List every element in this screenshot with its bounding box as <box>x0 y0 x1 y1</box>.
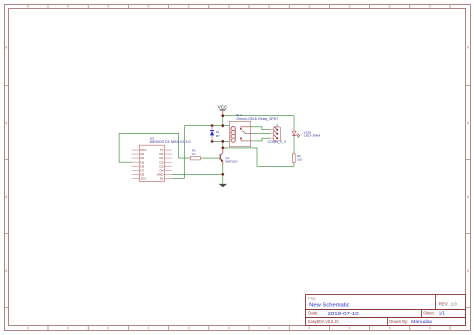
wire emitter to ground <box>222 165 224 184</box>
U1 right pin stubs <box>164 150 172 178</box>
RL4 coil <box>231 126 236 142</box>
title block outline <box>306 295 466 326</box>
svg-text:REV:: REV: <box>439 302 449 307</box>
U1 right pin names <box>157 148 165 180</box>
diode D1 <box>210 126 214 142</box>
U1 left pin stubs <box>132 150 140 178</box>
resistor R2 <box>292 154 295 163</box>
wire U1 GND pin to ground <box>172 173 223 175</box>
relay RL4 body <box>230 121 251 146</box>
wire LED return path <box>223 148 294 166</box>
wire relay contact bottom to J1 pin3 <box>251 138 271 141</box>
svg-text:VCC: VCC <box>218 104 228 109</box>
wire 5V feed vertical <box>184 126 186 179</box>
frame column ticks bottom <box>48 326 450 331</box>
wire coil-bottom net horizontal <box>212 140 229 142</box>
J1 pin stubs <box>270 130 273 139</box>
svg-text:Manudax: Manudax <box>411 319 433 324</box>
svg-text:1K: 1K <box>192 152 196 156</box>
connector J1 body <box>274 127 281 141</box>
J1 pin pads and arrows <box>274 127 278 140</box>
svg-text:1.0: 1.0 <box>451 302 457 307</box>
svg-text:New Schematic: New Schematic <box>309 302 350 308</box>
junction node emitter/GND wire <box>221 173 224 176</box>
transistor Q1 <box>220 148 223 165</box>
svg-text:3V3: 3V3 <box>140 176 146 180</box>
wire R1 to base <box>201 157 221 159</box>
wire VCC vertical to coil-top net <box>222 116 224 126</box>
svg-text:Omron-G5LE-Relay_SPDT: Omron-G5LE-Relay_SPDT <box>236 117 278 121</box>
RL4 contacts <box>240 127 251 141</box>
U1 left pin names <box>140 148 146 180</box>
svg-text:WEMOS D1 MINI V2.3.0: WEMOS D1 MINI V2.3.0 <box>150 140 191 144</box>
svg-text:Drawn By:: Drawn By: <box>389 319 408 324</box>
svg-text:220: 220 <box>297 158 302 162</box>
frame column numbers bottom <box>27 327 431 329</box>
svg-text:J1: J1 <box>276 123 280 127</box>
svg-text:Date:: Date: <box>308 311 318 316</box>
wire LED / R2 branch vertical <box>293 116 295 167</box>
IC U1 WEMOS D1 MINI body <box>139 145 164 181</box>
LED LED1 <box>292 131 300 137</box>
frame row ticks right <box>466 86 471 308</box>
frame row ticks left <box>5 86 9 308</box>
net flag VCC <box>218 104 228 115</box>
svg-text:CONN_3_V: CONN_3_V <box>268 140 287 144</box>
junction node coil top <box>221 124 224 127</box>
junction node diode anode <box>211 140 214 143</box>
frame column numbers top <box>27 5 431 7</box>
svg-text:LED-3MM: LED-3MM <box>304 134 321 138</box>
svg-text:Sheet:: Sheet: <box>423 311 435 316</box>
ground <box>219 184 228 187</box>
svg-text:EasyEDA V5.6.10: EasyEDA V5.6.10 <box>308 319 339 324</box>
svg-text:1/1: 1/1 <box>439 311 446 316</box>
junction node diode cathode <box>211 124 214 127</box>
wire coil-bottom to collector node <box>222 141 224 148</box>
wire VCC top rail horizontal <box>223 115 294 117</box>
frame column ticks top <box>48 5 450 9</box>
junction node coil bottom <box>221 140 224 143</box>
wire relay contact top to J1 pin1 <box>251 127 271 130</box>
frame row letters left <box>5 46 7 272</box>
svg-text:M7: M7 <box>216 134 220 138</box>
frame row letters right <box>467 46 469 272</box>
wire 5V feed to U1 pin <box>172 177 185 179</box>
svg-text:TITLE:: TITLE: <box>308 296 316 300</box>
wire base net from U1 D5 pin <box>119 133 190 162</box>
wire coil-top net horizontal <box>185 125 230 127</box>
junction node collector/LED return <box>221 147 224 150</box>
wire relay common to J1 pin2 <box>251 133 271 135</box>
resistor R1 <box>191 157 201 160</box>
junction node VCC/top-rail <box>221 114 224 117</box>
svg-text:2018-07-10: 2018-07-10 <box>328 311 360 316</box>
svg-text:MMBT2222A: MMBT2222A <box>225 159 237 163</box>
